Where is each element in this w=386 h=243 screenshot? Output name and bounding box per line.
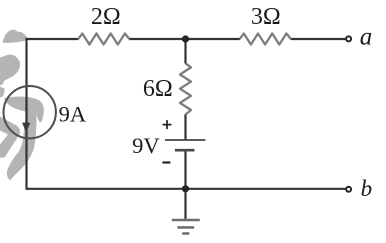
watermark tick mark bbox=[0, 87, 5, 98]
battery plus sign bbox=[163, 120, 172, 129]
wire top rail left segment bbox=[27, 38, 79, 40]
wire battery to bottom rail bbox=[184, 150, 186, 189]
svg-text:a: a bbox=[360, 24, 373, 51]
watermark blob mitten bbox=[0, 54, 20, 85]
svg-text:9A: 9A bbox=[59, 101, 87, 126]
resistor 6ohm zigzag bbox=[180, 63, 191, 114]
ground bar 2 bbox=[177, 226, 194, 229]
terminal a circle bbox=[346, 36, 351, 41]
battery V1 negative plate bbox=[175, 149, 195, 152]
battery V1 positive plate bbox=[165, 139, 206, 141]
ground bar 1 bbox=[172, 219, 200, 222]
wire middle top segment bbox=[184, 39, 186, 64]
watermark chevron bbox=[0, 117, 20, 158]
battery minus sign bbox=[162, 161, 170, 163]
wire bottom rail bbox=[27, 188, 346, 190]
wire top rail middle segment bbox=[129, 38, 240, 40]
wire middle segment resistor to battery bbox=[184, 114, 186, 140]
current source I1 circle bbox=[4, 86, 56, 138]
svg-text:9V: 9V bbox=[132, 133, 160, 158]
wire top rail right segment bbox=[291, 38, 346, 40]
resistor 3ohm zigzag bbox=[240, 34, 291, 45]
junction dot top node bbox=[182, 35, 189, 42]
svg-text:3Ω: 3Ω bbox=[251, 4, 281, 30]
svg-text:6Ω: 6Ω bbox=[143, 76, 173, 102]
svg-text:2Ω: 2Ω bbox=[91, 4, 121, 30]
terminal b circle bbox=[346, 187, 351, 192]
ground bar 3 bbox=[182, 232, 189, 235]
watermark column and swoosh bbox=[7, 106, 37, 181]
svg-text:b: b bbox=[361, 176, 373, 201]
junction dot bottom node bbox=[182, 185, 189, 192]
watermark top band bbox=[4, 97, 44, 123]
wire left branch bbox=[25, 38, 27, 190]
watermark blob top hill bbox=[3, 30, 29, 43]
current source arrow head bbox=[22, 123, 30, 133]
resistor 2ohm zigzag bbox=[78, 34, 129, 45]
ground stem bbox=[184, 189, 186, 220]
